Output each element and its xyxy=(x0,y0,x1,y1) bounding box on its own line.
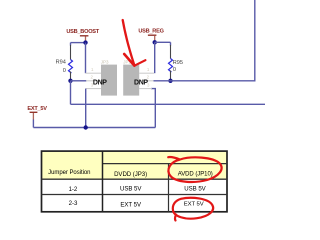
jumper JP10 body xyxy=(123,65,139,96)
wire: junction down to long net xyxy=(70,81,72,105)
net label EXT_5V xyxy=(27,106,47,128)
svg-text:AVDD (JP10): AVDD (JP10) xyxy=(178,171,213,177)
wire: junction to JP3 pin 2 xyxy=(71,80,87,82)
svg-text:USB 5V: USB 5V xyxy=(184,186,206,193)
resistor R95 xyxy=(169,42,183,81)
wire: R94 top lead corner down xyxy=(70,43,72,46)
node: USB_REG junction xyxy=(153,40,157,44)
JP3 pin numbers xyxy=(91,67,94,87)
wire: USB_BOOST down to JP3 pin 1 xyxy=(85,43,87,74)
svg-text:USB 5V: USB 5V xyxy=(120,186,142,193)
svg-text:USB_REG: USB_REG xyxy=(138,29,163,35)
wire: JP10 pin2 to R95 junction xyxy=(154,80,171,82)
wire: USB_REG down to JP10 pin 1 xyxy=(154,42,156,73)
svg-text:JP3: JP3 xyxy=(101,59,109,64)
table: vertical border col2/col3 xyxy=(168,164,170,212)
jumper JP3 body xyxy=(101,65,117,96)
svg-text:EXT 5V: EXT 5V xyxy=(184,202,204,208)
svg-text:DVDD (JP3): DVDD (JP3) xyxy=(114,171,147,178)
node: USB_BOOST junction xyxy=(83,40,87,44)
svg-text:1: 1 xyxy=(147,67,150,72)
annotation: red ellipse around AVDD (JP10) xyxy=(168,157,221,182)
svg-text:R94: R94 xyxy=(56,59,66,65)
svg-text:EXT_5V: EXT_5V xyxy=(27,106,47,112)
node: EXT_5V rail junction xyxy=(84,125,88,129)
svg-text:DNP: DNP xyxy=(134,79,148,86)
svg-text:Jumper Position: Jumper Position xyxy=(48,170,90,176)
table: inner horizontal border under header row xyxy=(42,178,228,180)
wire: long horizontal net to right edge xyxy=(71,103,266,105)
JP10 pin numbers xyxy=(147,67,150,87)
table texts xyxy=(48,170,213,208)
wire: USB_REG right to R95 xyxy=(155,41,171,43)
svg-text:DNP: DNP xyxy=(93,79,107,86)
svg-text:EXT 5V: EXT 5V xyxy=(120,201,142,208)
table: header yellow fill xyxy=(42,151,228,179)
wire: USB_BOOST horizontal to R94 corner xyxy=(71,42,86,44)
annotation: red arrow xyxy=(123,20,146,66)
table: inner horizontal border between data rows xyxy=(42,194,228,196)
svg-text:1-2: 1-2 xyxy=(69,186,78,193)
svg-text:0: 0 xyxy=(63,68,66,74)
svg-text:R95: R95 xyxy=(173,60,183,66)
svg-text:2-3: 2-3 xyxy=(69,200,78,207)
annotation: red ellipse around EXT 5V xyxy=(173,198,213,221)
table: vertical border col1/col2 xyxy=(102,151,104,212)
table: inner horizontal border under merged top row xyxy=(103,163,228,165)
resistor R94 xyxy=(56,45,73,81)
wire: rail corner up to JP10 pin 3 xyxy=(151,89,155,128)
svg-text:0: 0 xyxy=(173,67,176,73)
node: R94/JP3 pin2 junction xyxy=(68,79,72,83)
table: outer border xyxy=(42,151,228,212)
svg-text:1: 1 xyxy=(91,67,94,72)
wire: JP3 pin3 down to EXT_5V rail xyxy=(85,89,87,128)
svg-text:USB_BOOST: USB_BOOST xyxy=(66,29,99,35)
jumper JP10 pin stubs xyxy=(139,73,154,88)
net label USB_BOOST xyxy=(66,29,99,43)
wire: EXT_5V rail xyxy=(33,127,155,129)
wire: R95 junction right and up right edge xyxy=(171,0,255,81)
net label USB_REG xyxy=(138,29,163,43)
jumper JP3 pin stubs xyxy=(85,73,101,88)
node: R95 bottom junction xyxy=(168,79,172,83)
